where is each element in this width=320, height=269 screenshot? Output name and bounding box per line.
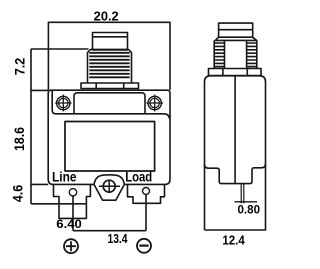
side hex nut xyxy=(209,69,262,76)
label recess rectangle xyxy=(65,122,155,172)
side body parting line xyxy=(234,76,236,184)
screw left cross xyxy=(55,95,71,112)
button cap rim line xyxy=(93,36,128,38)
face pocket contour xyxy=(52,90,169,119)
screw left outer xyxy=(57,96,70,109)
side bushing outline xyxy=(214,40,257,68)
svg-text:20.2: 20.2 xyxy=(94,9,119,23)
screw right cross xyxy=(147,95,163,112)
screw right inner xyxy=(150,98,159,107)
side nut facet right xyxy=(246,69,248,76)
plus symbol xyxy=(64,239,78,253)
center mount crosshair xyxy=(99,180,120,193)
svg-text:13.4: 13.4 xyxy=(108,232,128,246)
body outline front xyxy=(48,90,170,184)
side view button cap xyxy=(219,23,253,37)
side cap skirt xyxy=(215,37,256,40)
center mount target circle xyxy=(103,180,115,192)
right terminal hole xyxy=(143,188,150,195)
extension line at terminal tab bottom xyxy=(31,203,86,205)
side cap rim line xyxy=(219,29,253,31)
screw left inner xyxy=(59,98,68,107)
side body bottom channel xyxy=(205,164,266,184)
svg-text:4.6: 4.6 xyxy=(10,184,25,202)
nut facet left xyxy=(95,83,97,89)
right terminal outline xyxy=(128,184,165,203)
svg-text:0.80: 0.80 xyxy=(238,205,261,217)
screw right outer xyxy=(148,96,161,109)
side body outline with 12.4 extension xyxy=(205,76,266,230)
dim 13.4 left leg xyxy=(72,196,74,231)
button cap front xyxy=(93,33,128,51)
nut facet right xyxy=(123,83,125,89)
side nut facet left xyxy=(222,69,224,76)
dim 13.4 right leg xyxy=(145,195,147,231)
svg-text:7.2: 7.2 xyxy=(12,58,27,76)
side terminal blade xyxy=(241,184,244,204)
minus symbol xyxy=(137,239,151,253)
side bushing flat xyxy=(225,40,247,68)
svg-text:Load: Load xyxy=(125,170,152,185)
extension line at button top xyxy=(31,48,89,50)
dim 13.4 line xyxy=(73,230,146,232)
threaded bushing front outline xyxy=(88,49,132,83)
side thread crests xyxy=(214,43,257,67)
left terminal hole xyxy=(69,189,76,196)
extension line at body top xyxy=(31,89,48,91)
svg-text:12.4: 12.4 xyxy=(222,233,244,247)
svg-text:6.40: 6.40 xyxy=(56,219,82,231)
thread lines xyxy=(89,53,129,78)
svg-text:Line: Line xyxy=(52,170,77,185)
center mount silhouette xyxy=(94,175,124,200)
left terminal outline xyxy=(54,184,91,218)
extension line at body bottom xyxy=(31,183,48,185)
svg-text:18.6: 18.6 xyxy=(12,127,27,151)
hex nut front xyxy=(81,83,139,89)
left dimension vertical line xyxy=(30,49,32,204)
dim 0.80 line xyxy=(235,201,258,203)
face plateau contour xyxy=(74,93,145,114)
dimension 20.2 bracket xyxy=(48,22,170,90)
